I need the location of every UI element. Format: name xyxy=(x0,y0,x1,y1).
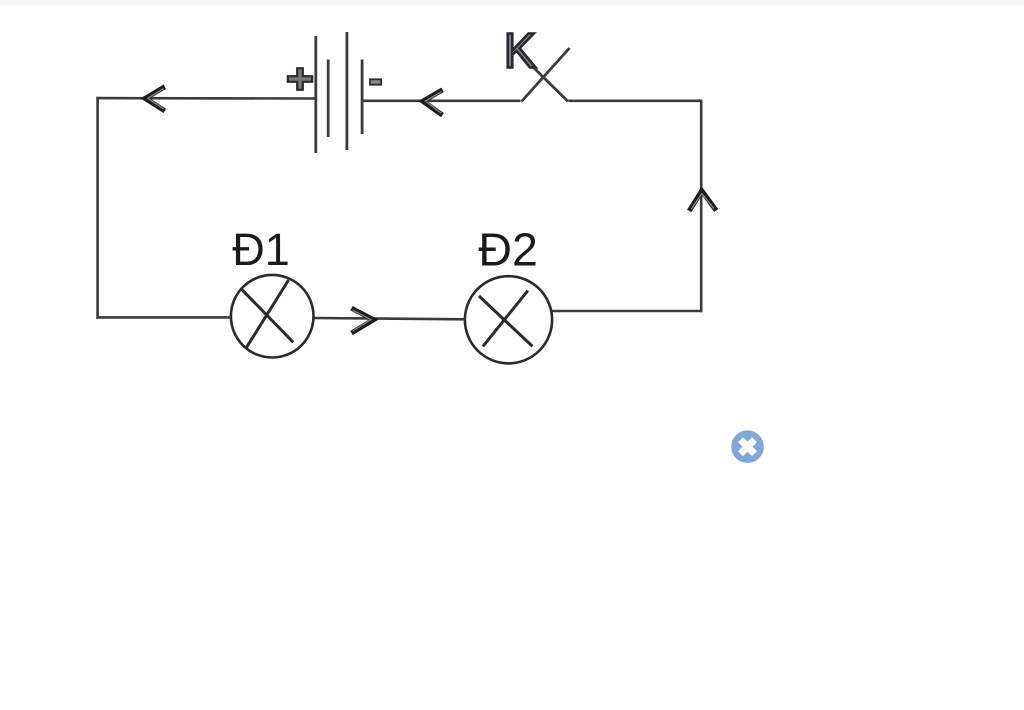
wire right vertical xyxy=(700,100,703,313)
lamp D1 cross line 2 xyxy=(246,280,288,348)
wire left vertical xyxy=(96,97,99,319)
battery negative plate 2 (short) xyxy=(361,60,364,135)
wire battery to switch xyxy=(362,100,520,103)
svg-text:K: K xyxy=(504,25,536,79)
top grey strip xyxy=(0,0,1024,4)
wire D2 to D1 xyxy=(313,318,465,319)
current arrow left-pointing on battery-switch wire xyxy=(423,90,443,115)
minus polarity label xyxy=(370,79,381,84)
lamp D2 circle xyxy=(465,276,552,363)
switch second blade xyxy=(534,68,569,102)
plus polarity label xyxy=(288,68,312,90)
lamp D2 cross line 2 xyxy=(483,291,528,347)
svg-text:Đ1: Đ1 xyxy=(232,224,290,275)
battery negative plate (short) xyxy=(327,60,330,138)
wire bottom-left horizontal xyxy=(96,316,231,319)
lamp D1 cross line 1 xyxy=(240,288,293,342)
close button xyxy=(731,430,764,463)
battery positive plate 2 (tall) xyxy=(345,32,348,150)
current arrow left-pointing on top-left wire xyxy=(145,87,165,111)
svg-text:Đ2: Đ2 xyxy=(478,223,537,275)
lamp D1 circle xyxy=(231,275,314,358)
wire bottom-right horizontal xyxy=(552,310,703,313)
current arrow right-pointing between lamps xyxy=(352,308,374,333)
lamp D2 cross line 1 xyxy=(479,296,533,346)
battery positive plate (tall) xyxy=(314,36,317,153)
switch blade xyxy=(522,48,570,102)
wire top-left horizontal xyxy=(96,97,315,100)
current arrow up-pointing on right vertical wire xyxy=(689,191,716,211)
wire switch to right corner xyxy=(569,100,703,103)
